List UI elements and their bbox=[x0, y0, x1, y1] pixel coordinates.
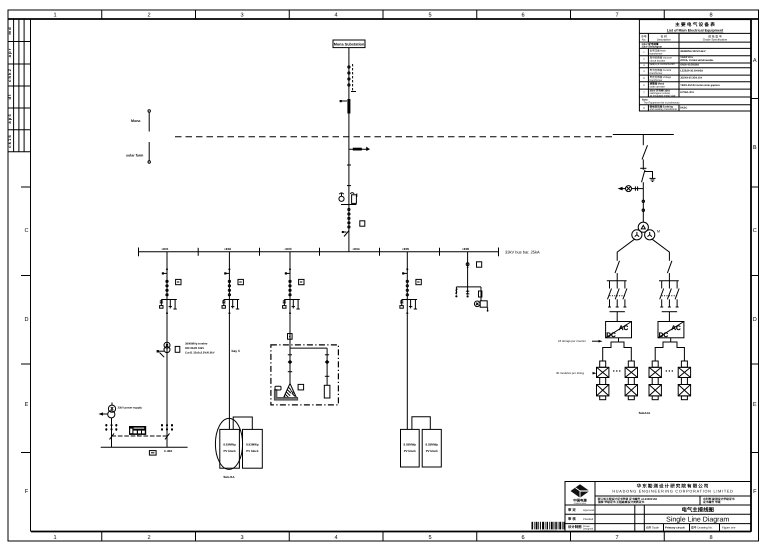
svg-text:=E05: =E05 bbox=[402, 247, 409, 251]
svg-text:8.93MWp: 8.93MWp bbox=[223, 442, 236, 446]
svg-text:8.93MWp: 8.93MWp bbox=[246, 442, 259, 446]
svg-text:transformer: transformer bbox=[650, 79, 663, 82]
svg-text:List of Main Electrical Equipm: List of Main Electrical Equipment bbox=[667, 28, 724, 32]
svg-text:133002156: 133002156 bbox=[540, 529, 557, 532]
svg-text:3: 3 bbox=[240, 13, 243, 19]
svg-text:Cur11 33±2x2.5%/0.6kV: Cur11 33±2x2.5%/0.6kV bbox=[185, 352, 215, 355]
svg-text:GN30-40.5/630A: GN30-40.5/630A bbox=[680, 64, 699, 67]
svg-text:PV block: PV block bbox=[404, 449, 417, 453]
svg-text:DKSC: DKSC bbox=[680, 106, 687, 109]
svg-text:7: 7 bbox=[615, 535, 618, 541]
svg-text:1: 1 bbox=[53, 535, 56, 541]
svg-text:M: M bbox=[657, 230, 660, 234]
svg-text:8.93MWp: 8.93MWp bbox=[426, 442, 439, 446]
svg-text:中国电建: 中国电建 bbox=[573, 499, 587, 503]
svg-text:A: A bbox=[753, 58, 757, 64]
svg-text:PV block: PV block bbox=[426, 449, 439, 453]
svg-text:Designed: Designed bbox=[583, 528, 594, 531]
svg-text:审 核: 审 核 bbox=[568, 517, 576, 521]
svg-text:2: 2 bbox=[147, 13, 150, 19]
svg-text:transformer: transformer bbox=[650, 72, 663, 75]
svg-text:SubA1A: SubA1A bbox=[639, 411, 652, 415]
svg-text:SubJ1A: SubJ1A bbox=[223, 475, 235, 479]
svg-text:air insulated metal-clad: air insulated metal-clad bbox=[650, 94, 676, 97]
svg-text:33kV Switchgear: 33kV Switchgear bbox=[642, 46, 663, 49]
svg-text:c h k 2: c h k 2 bbox=[7, 68, 12, 81]
svg-text:2: 2 bbox=[147, 535, 150, 541]
svg-text:AC: AC bbox=[619, 325, 629, 332]
svg-text:B: B bbox=[753, 145, 757, 151]
svg-text:2000A, 31.5kA withdrawable: 2000A, 31.5kA withdrawable bbox=[680, 59, 714, 62]
svg-text:POWERCHINA: POWERCHINA bbox=[574, 502, 587, 505]
svg-text:c k 1 6: c k 1 6 bbox=[7, 135, 12, 148]
svg-text:电气主接线图: 电气主接线图 bbox=[682, 507, 715, 514]
svg-text:circuit breaker: circuit breaker bbox=[650, 59, 666, 62]
svg-text:4: 4 bbox=[334, 535, 337, 541]
svg-text:3: 3 bbox=[240, 535, 243, 541]
svg-text:5: 5 bbox=[428, 535, 431, 541]
svg-text:图号 Drawing No.: 图号 Drawing No. bbox=[691, 526, 713, 530]
svg-text:30 modules per string: 30 modules per string bbox=[556, 371, 584, 375]
svg-text:38/48MVA 33kV/0.6kV: 38/48MVA 33kV/0.6kV bbox=[680, 50, 706, 53]
svg-text:=E02: =E02 bbox=[224, 247, 231, 251]
svg-text:Single Line Diagram: Single Line Diagram bbox=[666, 515, 729, 523]
svg-text:d t: d t bbox=[7, 94, 12, 100]
svg-text:OD=DU/D 33kV: OD=DU/D 33kV bbox=[185, 347, 204, 350]
svg-text:华东勘测设计研究院有限公司: 华东勘测设计研究院有限公司 bbox=[637, 482, 710, 488]
svg-text:Approved: Approved bbox=[583, 509, 595, 512]
svg-text:1: 1 bbox=[53, 13, 56, 19]
svg-text:隔离开关 Disconnector: 隔离开关 Disconnector bbox=[650, 62, 675, 66]
svg-text:a p r: a p r bbox=[7, 48, 12, 57]
svg-text:E: E bbox=[753, 402, 757, 408]
svg-text:JDZX9-35 35/0.1kV: JDZX9-35 35/0.1kV bbox=[680, 76, 702, 79]
svg-text:7: 7 bbox=[615, 13, 618, 19]
svg-text:HUADONG ENGINEERING CORPORATIO: HUADONG ENGINEERING CORPORATION LIMITED bbox=[612, 490, 733, 494]
svg-text:KYN61-40.5: KYN61-40.5 bbox=[680, 91, 694, 94]
svg-text:AC: AC bbox=[671, 325, 681, 332]
svg-text:8: 8 bbox=[709, 535, 712, 541]
svg-text:6: 6 bbox=[521, 13, 524, 19]
svg-text:LZZBJ9-35 2000/5A: LZZBJ9-35 2000/5A bbox=[680, 69, 703, 72]
svg-text:=E04: =E04 bbox=[352, 247, 359, 251]
svg-text:F: F bbox=[753, 489, 757, 495]
svg-text:Mona: Mona bbox=[131, 119, 141, 123]
svg-text:Description: Description bbox=[657, 38, 671, 42]
svg-text:33kV power supply: 33kV power supply bbox=[118, 407, 143, 410]
svg-text:m d: m d bbox=[7, 27, 12, 35]
svg-text:设计制图: 设计制图 bbox=[568, 525, 582, 529]
svg-text:Mona Substation: Mona Substation bbox=[334, 43, 365, 47]
svg-text:国家 甲级证书 工程勘察设计资质证书: 国家 甲级证书 工程勘察设计资质证书 bbox=[598, 500, 645, 504]
svg-text:and auxiliary transformer: and auxiliary transformer bbox=[650, 108, 678, 111]
svg-text:E: E bbox=[25, 402, 29, 408]
svg-text:D: D bbox=[753, 317, 757, 323]
svg-text:8: 8 bbox=[709, 13, 712, 19]
svg-text:PV block: PV block bbox=[246, 449, 259, 453]
svg-text:C-4B1: C-4B1 bbox=[164, 449, 173, 453]
svg-text:solar farm: solar farm bbox=[126, 154, 143, 158]
svg-text:D: D bbox=[24, 317, 28, 323]
svg-text:=E03: =E03 bbox=[284, 247, 291, 251]
svg-text:Figure one: Figure one bbox=[722, 526, 736, 530]
svg-text:Primary circuit: Primary circuit bbox=[665, 526, 685, 530]
svg-text:33kV bus bar, 25kA: 33kV bus bar, 25kA bbox=[505, 250, 540, 255]
svg-text:8.93MWp: 8.93MWp bbox=[404, 442, 417, 446]
svg-text:4: 4 bbox=[334, 13, 337, 19]
svg-text:审 定: 审 定 bbox=[568, 508, 576, 512]
svg-text:The Equipment list is prelimin: The Equipment list is preliminary bbox=[644, 101, 681, 104]
svg-text:transformer: transformer bbox=[650, 52, 663, 55]
svg-text:证书编号 甲级: 证书编号 甲级 bbox=[703, 500, 721, 504]
svg-text:主 要 电 气 设 备 表: 主 要 电 气 设 备 表 bbox=[675, 22, 715, 27]
svg-text:bay 4: bay 4 bbox=[232, 349, 240, 353]
svg-text:No.: No. bbox=[642, 38, 647, 42]
svg-text:=E01: =E01 bbox=[161, 247, 168, 251]
svg-text:Y5W1-51/134 metal oxide gaple: Y5W1-51/134 metal oxide gapless bbox=[680, 84, 720, 87]
svg-text:F: F bbox=[25, 489, 29, 495]
svg-text:C: C bbox=[753, 228, 757, 234]
svg-text:oxide arrester: oxide arrester bbox=[650, 85, 665, 88]
svg-text:DC: DC bbox=[659, 332, 669, 339]
svg-text:Checked: Checked bbox=[583, 518, 594, 521]
svg-text:=E06: =E06 bbox=[462, 247, 469, 251]
svg-text:比例 Scale: 比例 Scale bbox=[646, 526, 660, 530]
svg-text:Grade Specification: Grade Specification bbox=[703, 38, 728, 42]
svg-text:5: 5 bbox=[428, 13, 431, 19]
svg-text:PV block: PV block bbox=[223, 449, 236, 453]
svg-text:DC: DC bbox=[606, 332, 616, 339]
svg-text:6: 6 bbox=[521, 535, 524, 541]
svg-text:C: C bbox=[24, 228, 28, 234]
svg-text:a p 4: a p 4 bbox=[7, 114, 12, 124]
svg-text:38/48MVp trnsfmr: 38/48MVp trnsfmr bbox=[185, 343, 208, 346]
svg-text:24 strings per inverter: 24 strings per inverter bbox=[558, 339, 586, 343]
